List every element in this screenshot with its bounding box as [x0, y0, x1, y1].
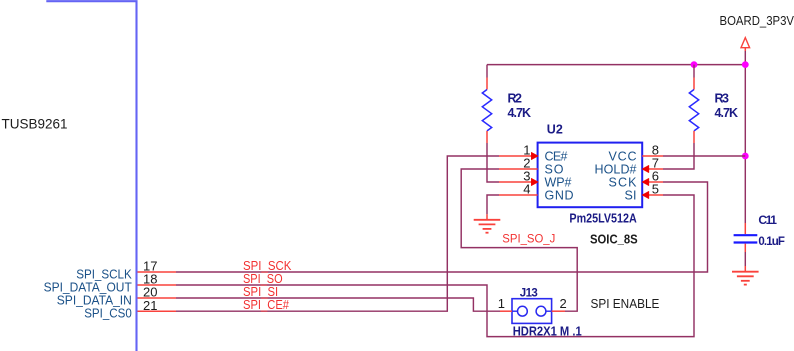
svg-text:21: 21: [143, 298, 157, 313]
svg-text:SPI_SI: SPI_SI: [243, 285, 278, 299]
capacitor C11: [734, 223, 758, 266]
J13 pin 2 stub: [552, 310, 565, 312]
svg-text:R2: R2: [508, 91, 523, 105]
pin 20 stub: [138, 297, 177, 299]
svg-text:1: 1: [498, 296, 505, 311]
wire VCC pin8 to rail: [663, 155, 745, 157]
svg-text:U2: U2: [547, 122, 563, 136]
wire SPI_SO_J net: U2 SO to J13 pin2: [461, 169, 577, 311]
ground symbol at C11: [732, 266, 759, 285]
svg-text:J13: J13: [520, 287, 538, 299]
svg-text:5: 5: [652, 181, 659, 196]
U2 pin 4 GND: [499, 194, 538, 196]
svg-text:HOLD#: HOLD#: [595, 163, 637, 177]
U2 pin 3 WP#: [499, 178, 538, 186]
junction dot rail/power: [742, 61, 749, 68]
wire 3P3V rail vertical: [744, 51, 746, 223]
U2 pin 8 VCC: [642, 155, 663, 157]
svg-text:VCC: VCC: [609, 150, 637, 164]
svg-text:SPI_DATA_IN: SPI_DATA_IN: [57, 293, 132, 307]
svg-text:BOARD_3P3V: BOARD_3P3V: [720, 14, 794, 28]
svg-text:SPI_CE#: SPI_CE#: [243, 298, 289, 312]
U2 pin 6 SCK: [642, 178, 663, 186]
svg-text:4: 4: [523, 181, 530, 196]
junction dot rail/R3: [691, 61, 698, 68]
svg-text:4.7K: 4.7K: [715, 106, 739, 120]
wire SPI_SCK net: row 17 to U2 pin6: [176, 182, 708, 272]
wire SPI_SI net: row 20 to J13 pin1: [176, 298, 500, 311]
IC U2 body: [538, 143, 643, 208]
resistor R2: [482, 65, 491, 143]
svg-text:SPI_SCK: SPI_SCK: [243, 259, 292, 273]
wire R3 to HOLD# pin7: [663, 143, 694, 169]
pin 17 stub: [138, 271, 177, 273]
U2 pin 5 SI: [642, 191, 663, 199]
pin 18 stub: [138, 284, 177, 286]
svg-text:Pm25LV512A: Pm25LV512A: [569, 211, 636, 225]
connector J13 body: [512, 299, 552, 324]
pin 21 stub: [138, 310, 177, 312]
svg-text:TUSB9261: TUSB9261: [2, 117, 68, 132]
U2 pin 2 SO: [499, 168, 538, 170]
svg-text:WP#: WP#: [545, 176, 572, 190]
U2 pin 1 CE#: [499, 152, 538, 160]
svg-text:0.1uF: 0.1uF: [758, 236, 785, 248]
svg-text:SPI_SCLK: SPI_SCLK: [76, 267, 132, 281]
junction dot VCC row: [742, 153, 749, 160]
wire SPI_SO net: row 18 to U2 pin5: [176, 195, 694, 337]
chip TUSB9261 boundary: [46, 1, 136, 351]
svg-text:SPI_DATA_OUT: SPI_DATA_OUT: [44, 280, 133, 294]
wire U2 GND to ground: [487, 195, 499, 214]
J13 pin 1 stub: [500, 310, 512, 312]
wire 3P3V rail horizontal: [487, 64, 745, 66]
wire SPI_CE# net: row 21 to U2 pin1: [176, 156, 499, 311]
svg-text:4.7K: 4.7K: [508, 106, 532, 120]
U2 pin 7 HOLD#: [642, 165, 663, 173]
svg-text:SO: SO: [545, 163, 564, 177]
svg-text:SCK: SCK: [609, 176, 638, 190]
svg-text:2: 2: [560, 296, 567, 311]
resistor R3: [689, 65, 698, 143]
svg-text:SPI_CS0: SPI_CS0: [84, 307, 132, 321]
svg-text:C11: C11: [758, 213, 777, 227]
svg-text:SPI_SO_J: SPI_SO_J: [502, 231, 555, 245]
power symbol BOARD_3P3V: [741, 38, 750, 51]
wire R2 to WP# pin3: [487, 143, 499, 182]
svg-text:SPI_SO: SPI_SO: [243, 272, 283, 286]
svg-text:GND: GND: [545, 189, 574, 203]
svg-text:HDR2X1 M .1: HDR2X1 M .1: [513, 324, 582, 338]
svg-text:SPI ENABLE: SPI ENABLE: [591, 297, 660, 311]
svg-text:SI: SI: [625, 189, 637, 203]
svg-text:R3: R3: [715, 91, 730, 105]
svg-text:CE#: CE#: [545, 150, 568, 164]
ground symbol at U2 GND: [474, 214, 501, 233]
svg-text:SOIC_8S: SOIC_8S: [590, 232, 638, 246]
